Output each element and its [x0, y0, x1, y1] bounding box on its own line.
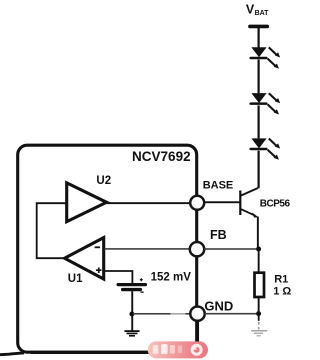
junction FB node [256, 247, 261, 252]
faded segment of GND wire [171, 312, 186, 315]
svg-text:FB: FB [210, 228, 227, 242]
svg-text:NCV7692: NCV7692 [132, 149, 191, 164]
ground symbol internal [124, 330, 139, 336]
wire FB pin to FB node [204, 248, 258, 250]
svg-text:U2: U2 [96, 175, 111, 187]
LED D1 [249, 47, 280, 68]
junction GND node [256, 311, 261, 316]
wire GND pin to GND node [205, 313, 259, 315]
wire U1 inverting input to FB pin [105, 248, 191, 250]
svg-text:V: V [246, 3, 255, 17]
V_BAT supply bar [248, 25, 269, 29]
wire U1 plus input to reference [105, 271, 132, 283]
wire GND pin to external ground rail [31, 320, 197, 353]
svg-text:GND: GND [204, 299, 233, 314]
LED D3 [249, 138, 280, 159]
svg-text:R1: R1 [274, 273, 288, 285]
wire emitter to FB node [257, 217, 259, 250]
svg-text:BASE: BASE [203, 180, 234, 192]
buffer U2 [67, 183, 107, 222]
svg-text:BAT: BAT [255, 10, 270, 17]
reference source V1 battery [117, 278, 148, 293]
node V_BAT label [246, 3, 269, 17]
wire D3 to collector of Q1 [258, 151, 260, 189]
op-amp U1 [65, 238, 104, 279]
wire R1 to GND node [258, 297, 260, 314]
IC box NCV7692 [18, 145, 197, 352]
wire D2 to D3 [258, 105, 260, 138]
svg-text:152 mV: 152 mV [151, 271, 192, 283]
faint chassis ground under R1 [251, 314, 267, 337]
junction battery/GND net [129, 312, 134, 317]
pin GND [190, 307, 204, 321]
LED D2 [249, 93, 280, 114]
wire feedback rail left [37, 203, 67, 258]
wire junction to GND pin [133, 313, 190, 315]
wire V_BAT bar to LED D1 [258, 28, 260, 48]
wire D1 to D2 [258, 60, 260, 94]
wire FB node to R1 [258, 249, 260, 273]
resistor R1 [255, 273, 265, 297]
wire battery to ground [131, 291, 133, 331]
svg-text:U1: U1 [68, 273, 83, 285]
wire BASE pin to transistor base [204, 201, 240, 203]
U1 plus sign [96, 268, 102, 274]
wire U2 output to BASE pin [107, 202, 191, 204]
wire ground rail exit left [0, 353, 24, 355]
svg-text:BCP56: BCP56 [260, 199, 291, 210]
U1 minus sign [95, 246, 100, 248]
transistor Q1 BCP56 [239, 188, 259, 218]
svg-text:1 Ω: 1 Ω [273, 286, 291, 298]
watermark blob [148, 341, 208, 358]
pin FB [190, 242, 204, 256]
pin BASE [190, 196, 204, 210]
